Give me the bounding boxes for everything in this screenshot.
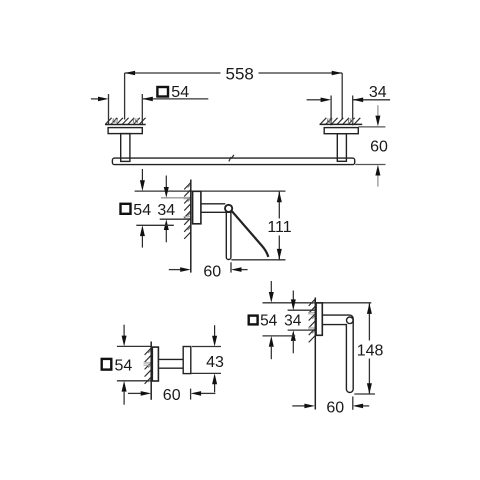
svg-text:54: 54 bbox=[133, 202, 151, 219]
svg-text:60: 60 bbox=[370, 139, 388, 156]
svg-text:34: 34 bbox=[157, 202, 175, 219]
svg-text:34: 34 bbox=[284, 313, 302, 330]
svg-text:60: 60 bbox=[163, 387, 181, 404]
svg-text:148: 148 bbox=[357, 342, 384, 359]
svg-text:60: 60 bbox=[326, 399, 344, 416]
svg-text:60: 60 bbox=[203, 263, 221, 280]
svg-text:34: 34 bbox=[369, 84, 387, 101]
svg-text:54: 54 bbox=[115, 358, 133, 375]
svg-text:43: 43 bbox=[206, 354, 224, 371]
svg-text:558: 558 bbox=[226, 65, 254, 84]
svg-text:54: 54 bbox=[171, 84, 189, 101]
svg-text:111: 111 bbox=[267, 219, 291, 236]
svg-text:54: 54 bbox=[260, 313, 278, 330]
